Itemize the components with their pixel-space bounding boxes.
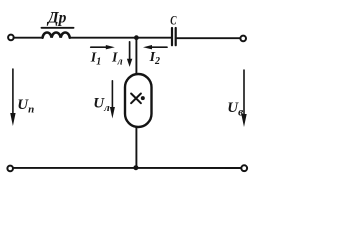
svg-text:I2: I2 (149, 50, 160, 67)
svg-text:C: C (170, 14, 177, 28)
terminal bottom-right (241, 165, 247, 171)
lamp (gas-discharge lamp) envelope (125, 74, 152, 127)
svg-text:Uл: Uл (93, 96, 110, 114)
wire top-middle segment (70, 37, 171, 39)
node junction bottom (133, 165, 138, 170)
wire lamp to bottom (135, 127, 137, 168)
capacitor C plates (171, 28, 173, 45)
svg-text:I1: I1 (90, 51, 101, 68)
terminal bottom-left (7, 166, 13, 172)
lamp cross mark (131, 94, 141, 104)
terminal top-left (8, 35, 14, 41)
terminal top-right (240, 36, 246, 42)
wire top-left segment (14, 37, 43, 39)
svg-text:Uп: Uп (17, 97, 34, 115)
wire vertical junction to lamp (135, 38, 137, 75)
lamp dot mark (141, 96, 145, 100)
current arrow I2 (143, 45, 167, 49)
voltage arrow Uв (241, 70, 246, 127)
inductor Др (choke) (43, 32, 70, 37)
svg-text:Др: Др (46, 9, 67, 26)
voltage arrow Uл (110, 81, 115, 119)
wire bottom (13, 167, 241, 169)
wire top-right segment (177, 37, 240, 39)
current arrow I1 (91, 45, 115, 49)
inductor core bar (42, 27, 74, 29)
node junction top (134, 35, 139, 40)
current arrow Iл (127, 42, 132, 67)
svg-text:Uв: Uв (227, 100, 243, 119)
voltage arrow Uп (10, 69, 15, 126)
svg-text:Iл: Iл (111, 51, 123, 68)
